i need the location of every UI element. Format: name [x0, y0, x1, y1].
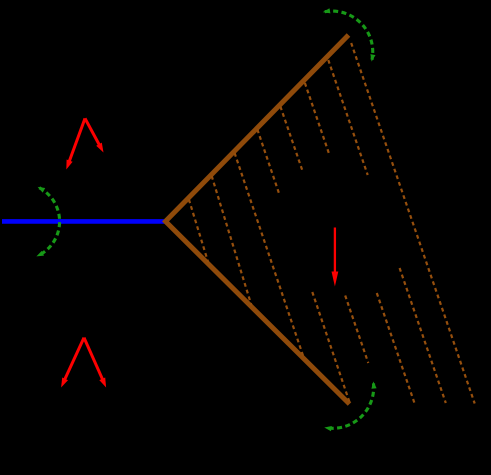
upper red double-ray arrow [66, 118, 103, 169]
wavefront ray 7 (dashed) [328, 60, 446, 403]
wavefront ray 1 (dashed) [189, 200, 208, 263]
wavefront ray 3 (dashed) [235, 153, 304, 357]
red downward arrow inside cone [332, 228, 339, 287]
rotation arc at left (dashed, double arrow) [36, 187, 59, 257]
wavefront ray 2 (dashed) [212, 176, 252, 306]
wavefront ray 4 (dashed) [257, 130, 349, 404]
wavefront ray 8 (dashed) [351, 43, 475, 404]
rotation arc at lower cone tip (dashed, double arrow) [324, 381, 376, 431]
shock-cone edges (brown V) [166, 35, 350, 404]
object trajectory (blue line) [2, 219, 165, 224]
lower red double-ray arrow [61, 338, 106, 388]
rotation arc at upper cone tip (dashed, double arrow) [323, 8, 376, 61]
wavefront ray 6 (dashed) [305, 83, 415, 404]
wavefront ray 5 (dashed) [280, 107, 368, 364]
